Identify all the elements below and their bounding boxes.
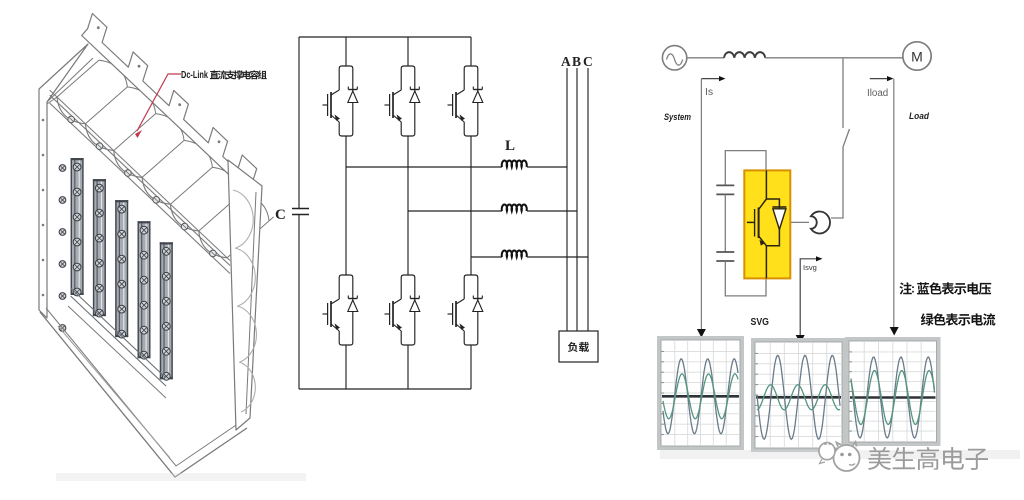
wire inductor to motor [765,57,903,59]
red leader line to capacitors [135,74,181,138]
svg-text:C: C [275,207,286,223]
arrow into scope 2 [796,335,805,344]
wire leg 3 midsection [470,136,472,275]
Is probe arrow [701,76,725,330]
AC source circle [662,46,686,70]
svg-text:System: System [664,112,691,123]
wire phase line C [587,68,589,331]
current transformer CT [811,212,830,234]
SVG converter yellow box [744,170,790,278]
capacitor DC link lower [716,252,734,261]
wire inductor to C line [527,256,588,258]
faint watermark strip [56,450,1020,481]
load box [559,331,598,362]
inductor L3 [502,250,527,257]
svg-text:Dc-Link: Dc-Link [181,70,208,81]
svg-text:C: C [583,54,593,69]
svg-text:A: A [561,54,571,69]
wire between capacitors [724,194,726,252]
label SVG [751,316,770,328]
capacitor-bank rear flange with tabs [82,14,260,201]
Isvg probe arrow [800,256,822,336]
label Dc-Link capacitor group [181,70,267,81]
wire phase line B [576,68,578,331]
note line 2 [921,313,996,326]
wire inductor to B line [527,210,577,212]
wire bottom stub leg 2 [407,345,409,389]
wire phase C to inductor [471,256,502,258]
svg-text:L: L [505,138,515,154]
note line 1 [899,282,991,296]
capacitor DC link upper [716,185,734,194]
Iload probe arrow [867,76,894,328]
wire bottom stub leg 1 [345,345,347,389]
busbar panel with bolts [59,158,173,386]
IGBT upper Q2 [385,66,420,136]
wire source to inductor [687,57,724,59]
inductor L1 [502,160,527,167]
wire inductor to A line [527,166,567,168]
switch blade [843,129,850,147]
wire phase B to inductor [408,210,502,212]
svg-text:B: B [572,54,581,69]
IGBT inside converter [747,170,787,278]
label System [664,112,691,123]
wire bottom stub leg 3 [470,345,472,389]
wire phase A to inductor [346,166,502,168]
watermark text [868,447,988,470]
svg-text::: : [911,282,915,296]
wire leg 2 midsection [407,136,409,275]
svg-text:Isvg: Isvg [803,263,817,272]
wire top stub leg 1 [345,37,347,66]
wire phase line A [566,68,568,331]
svg-text:SVG: SVG [751,316,770,328]
wire bottom DC rail [299,388,471,390]
wire converter top loop [725,151,766,186]
wire DC bus left [298,37,300,389]
watermark logo [819,442,860,471]
capacitor C [275,207,309,223]
wire top stub leg 2 [407,37,409,66]
wire top DC rail [299,36,471,38]
wire CT to converter [791,221,810,223]
wire leg 1 midsection [345,136,347,275]
capacitor cylinders on slanted top [57,56,274,258]
IGBT upper Q1 [323,66,358,136]
labels A B C [561,54,593,69]
IGBT lower Q6 [448,275,483,345]
arrow into scope 1 [697,329,706,338]
svg-text:Load: Load [909,111,929,122]
scope plot 1 [659,338,742,448]
wire top stub leg 3 [470,37,472,66]
capacitor-bank left wall [39,44,93,318]
wire converter bottom loop [725,261,766,296]
IGBT lower Q5 [385,275,420,345]
arrow into scope 3 [890,327,899,336]
scope plot 2 [753,340,844,450]
enclosure bottom edges [40,306,247,477]
scope plot 3 [847,339,939,444]
wire branch from bus [842,58,844,128]
front mounting rail with bolts [50,90,230,273]
wire switch to CT [831,147,843,218]
label L [505,138,515,154]
enclosure right wall [228,160,262,430]
motor M circle [903,42,931,70]
IGBT upper Q3 [448,66,483,136]
svg-text:Is: Is [705,86,713,98]
label Load [909,111,929,122]
svg-text:M: M [911,49,923,65]
inductor L2 [502,204,527,211]
IGBT lower Q4 [323,275,358,345]
line inductor [724,52,765,58]
svg-text:Iload: Iload [867,88,888,99]
